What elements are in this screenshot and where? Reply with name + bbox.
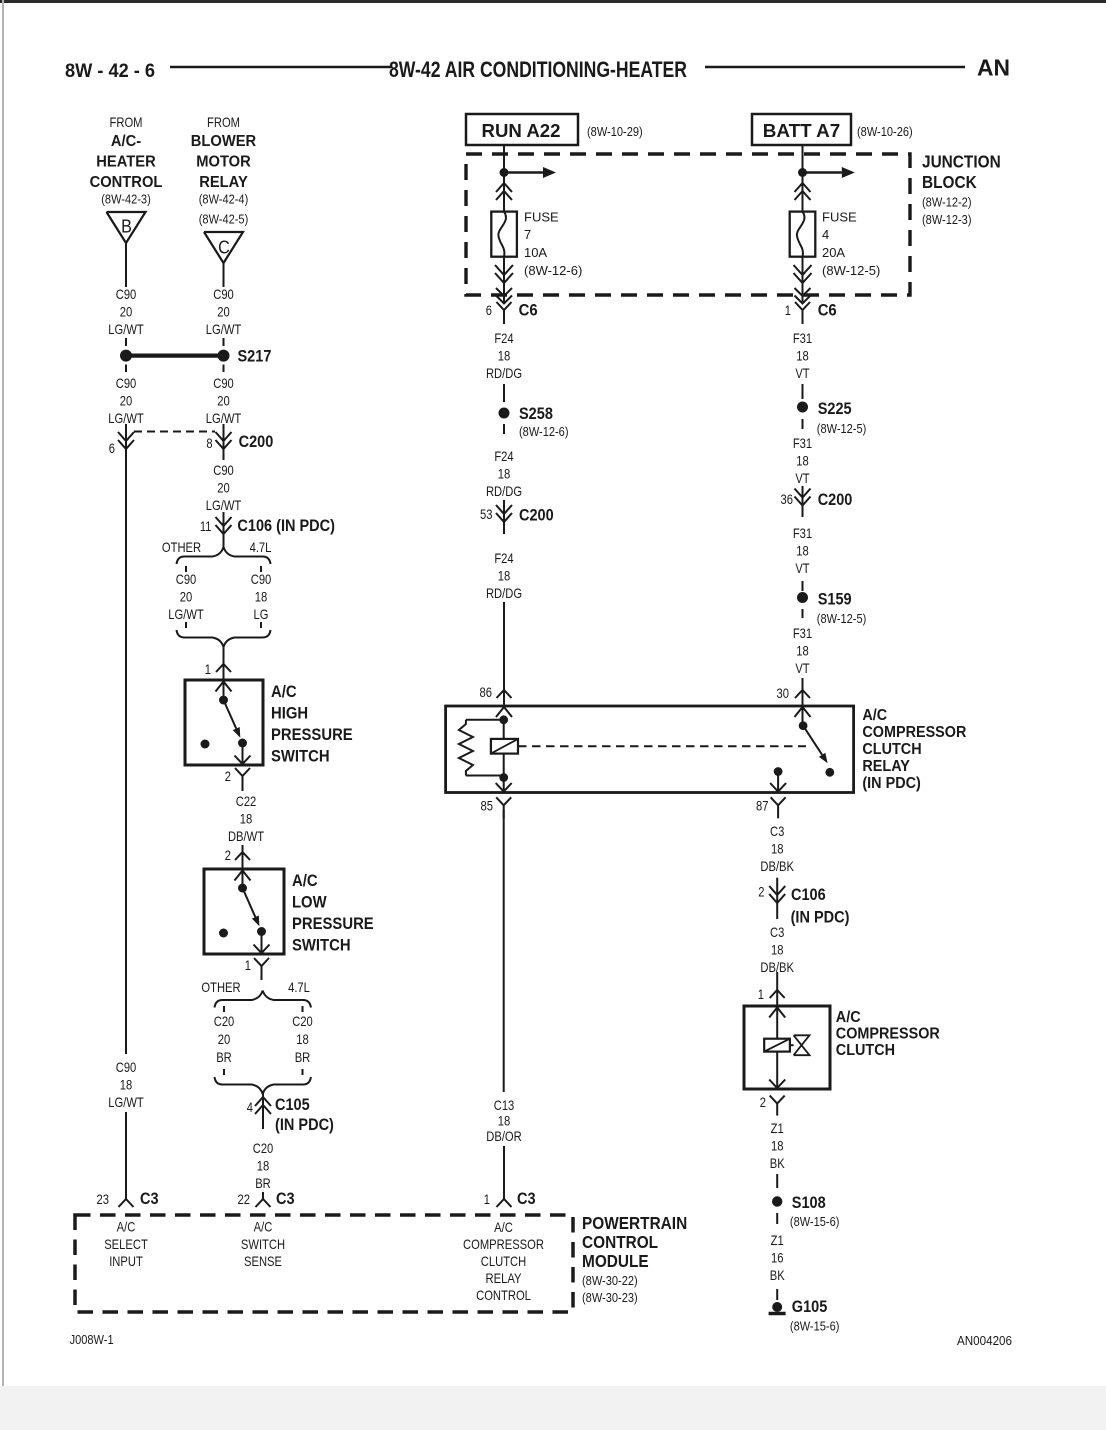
svg-text:20: 20 [217, 304, 230, 320]
wire with flow chevrons [496, 173, 512, 212]
relay pin 85 exit [481, 778, 512, 819]
svg-text:C6: C6 [818, 302, 837, 320]
svg-text:(8W-12-5): (8W-12-5) [817, 421, 867, 436]
svg-text:SENSE: SENSE [244, 1253, 282, 1269]
clutch pin 2 connector [760, 1094, 785, 1116]
reference (8W-10-26) [857, 124, 913, 139]
svg-text:18: 18 [498, 466, 511, 482]
svg-text:OTHER: OTHER [201, 979, 240, 995]
svg-text:MODULE: MODULE [582, 1251, 649, 1271]
wire label F24 18 RD/DG [486, 550, 522, 601]
svg-text:C13: C13 [494, 1097, 515, 1113]
svg-text:SELECT: SELECT [104, 1236, 148, 1252]
dashed connector link C200 [134, 431, 215, 433]
svg-text:DB/BK: DB/BK [760, 858, 794, 874]
wire label C90 20 LG/WT [206, 286, 242, 337]
branch wire [302, 1069, 304, 1075]
svg-text:8: 8 [206, 435, 212, 451]
svg-text:(8W-12-6): (8W-12-6) [524, 263, 582, 278]
wire label C90 20 LG/WT [206, 375, 242, 426]
wire [802, 419, 804, 429]
svg-text:C: C [218, 238, 230, 258]
wire [776, 878, 778, 885]
svg-text:(8W-30-22): (8W-30-22) [582, 1273, 638, 1288]
svg-text:VT: VT [795, 365, 810, 381]
svg-text:F24: F24 [494, 448, 513, 464]
off-page connector triangle C [204, 232, 243, 263]
svg-text:(8W-42-5): (8W-42-5) [199, 212, 249, 227]
svg-text:2: 2 [225, 847, 231, 863]
svg-text:53: 53 [480, 506, 493, 522]
svg-text:18: 18 [498, 568, 511, 584]
svg-text:C22: C22 [236, 793, 257, 809]
svg-text:C90: C90 [213, 462, 234, 478]
svg-text:(IN PDC): (IN PDC) [862, 775, 920, 792]
connector C106 pin 2 (in PDC) [758, 884, 849, 927]
bus node and arrow [500, 167, 557, 178]
svg-text:AN004206: AN004206 [957, 1333, 1012, 1348]
page bottom band [0, 1386, 1106, 1430]
page top border [0, 0, 1106, 3]
wire [776, 1213, 778, 1224]
branch wire [223, 1006, 225, 1012]
A/C low pressure switch label [292, 872, 374, 955]
svg-text:A/C: A/C [271, 683, 297, 701]
connector C200 pin 36 [781, 486, 853, 517]
svg-text:(8W-10-26): (8W-10-26) [857, 124, 913, 139]
svg-text:B: B [121, 217, 132, 237]
svg-text:20: 20 [217, 480, 230, 496]
svg-text:18: 18 [240, 811, 253, 827]
svg-text:INPUT: INPUT [109, 1253, 143, 1269]
branch label C90 20 LG/WT [168, 571, 204, 622]
A/C high pressure switch label [271, 683, 353, 766]
svg-text:FUSE: FUSE [822, 210, 857, 225]
svg-text:A/C: A/C [494, 1219, 513, 1235]
svg-text:RD/DG: RD/DG [486, 483, 522, 499]
wire [125, 1112, 127, 1199]
wire label Z1 18 BK [770, 1120, 785, 1171]
header rule right [705, 66, 965, 69]
svg-text:LG/WT: LG/WT [206, 497, 242, 513]
svg-text:G105: G105 [792, 1298, 828, 1316]
page left border [2, 0, 4, 1430]
relay coil to contact dashed link [518, 745, 806, 747]
branch wire [223, 1069, 225, 1075]
svg-text:20A: 20A [822, 245, 845, 260]
BATT A7 fuse block cavity box [752, 114, 851, 145]
splice S217 [120, 348, 271, 366]
wire label C90 20 LG/WT [108, 286, 144, 337]
powertrain control module label [582, 1213, 687, 1305]
svg-text:C3: C3 [276, 1190, 295, 1208]
svg-text:VT: VT [795, 470, 810, 486]
svg-text:PRESSURE: PRESSURE [271, 726, 353, 744]
ground G105 [769, 1298, 840, 1334]
wire with flow chevrons [795, 173, 811, 212]
svg-text:20: 20 [120, 304, 133, 320]
svg-text:DB/WT: DB/WT [228, 828, 264, 844]
footer sheet code [70, 1332, 114, 1347]
wire label C3 18 DB/BK [760, 924, 794, 975]
svg-text:(8W-42-3): (8W-42-3) [101, 192, 151, 207]
svg-text:A/C: A/C [117, 1219, 136, 1235]
wire [125, 243, 127, 287]
svg-text:BR: BR [295, 1049, 311, 1065]
svg-text:VT: VT [795, 560, 810, 576]
wire [802, 145, 804, 173]
branch label C90 18 LG [251, 571, 272, 622]
svg-text:6: 6 [109, 440, 115, 456]
splice S225 [797, 400, 866, 436]
svg-text:Z1: Z1 [771, 1120, 784, 1136]
splice S258 [499, 405, 569, 439]
svg-text:A/C: A/C [292, 872, 318, 890]
wire label F24 18 RD/DG [486, 448, 522, 499]
svg-text:11: 11 [200, 518, 212, 534]
wire to relay pin 30 [777, 678, 811, 706]
svg-text:LOW: LOW [292, 894, 327, 912]
svg-text:COMPRESSOR: COMPRESSOR [463, 1236, 544, 1252]
wire label C90 20 LG/WT [108, 375, 144, 426]
svg-text:F31: F31 [793, 330, 812, 346]
svg-text:F31: F31 [793, 625, 812, 641]
wire [125, 452, 127, 1054]
svg-text:VT: VT [795, 660, 810, 676]
svg-text:RD/DG: RD/DG [486, 365, 522, 381]
svg-text:20: 20 [217, 393, 230, 409]
bus node and arrow [798, 167, 855, 178]
svg-text:2: 2 [760, 1094, 766, 1110]
svg-text:FROM: FROM [207, 114, 240, 130]
svg-text:18: 18 [257, 1158, 270, 1174]
svg-text:SWITCH: SWITCH [292, 937, 351, 955]
svg-text:18: 18 [498, 348, 511, 364]
from blower motor relay label [191, 114, 256, 227]
svg-text:RD/DG: RD/DG [486, 585, 522, 601]
svg-text:4: 4 [822, 227, 829, 242]
svg-text:18: 18 [796, 643, 809, 659]
svg-text:S108: S108 [792, 1194, 826, 1212]
svg-text:PRESSURE: PRESSURE [292, 915, 374, 933]
svg-text:POWERTRAIN: POWERTRAIN [582, 1213, 687, 1233]
relay contact 87 [770, 767, 786, 792]
fuse 7 symbol [491, 212, 517, 257]
svg-text:(8W-12-5): (8W-12-5) [822, 263, 880, 278]
high pressure switch internals [201, 682, 251, 765]
svg-text:8W-42 AIR CONDITIONING-HEATER: 8W-42 AIR CONDITIONING-HEATER [389, 57, 687, 82]
svg-text:RELAY: RELAY [486, 1270, 522, 1286]
svg-text:LG/WT: LG/WT [206, 410, 242, 426]
connector pin 1 of high pressure switch [205, 646, 231, 680]
svg-text:A/C-: A/C- [111, 133, 141, 150]
connector C22 pin 2 of low pressure switch [225, 845, 250, 869]
wire label F31 18 VT [793, 625, 812, 676]
wire [223, 338, 225, 346]
svg-text:C106 (IN PDC): C106 (IN PDC) [237, 517, 335, 535]
svg-text:C200: C200 [519, 507, 554, 525]
svg-text:CONTROL: CONTROL [90, 174, 163, 191]
svg-text:C20: C20 [214, 1013, 235, 1029]
svg-text:18: 18 [120, 1077, 133, 1093]
svg-text:A/C: A/C [862, 707, 887, 724]
engine branch merge lower [215, 1077, 311, 1094]
svg-text:FROM: FROM [110, 114, 143, 130]
wire label C90 18 LG/WT [108, 1059, 144, 1110]
connector C3 pin 22 [238, 1190, 295, 1208]
svg-text:S225: S225 [818, 400, 852, 418]
svg-text:C200: C200 [818, 491, 853, 509]
connector C200 pin 8 [206, 424, 273, 460]
svg-text:10A: 10A [524, 245, 547, 260]
wire label F31 18 VT [793, 525, 812, 576]
svg-text:(8W-15-6): (8W-15-6) [790, 1319, 840, 1334]
svg-text:HIGH: HIGH [271, 705, 308, 723]
branch label C20 18 BR [292, 1013, 313, 1065]
svg-text:CONTROL: CONTROL [476, 1287, 531, 1303]
svg-text:C3: C3 [140, 1190, 159, 1208]
svg-text:18: 18 [771, 942, 784, 958]
svg-text:2: 2 [758, 884, 764, 900]
svg-text:(8W-15-6): (8W-15-6) [790, 1214, 840, 1229]
wire [802, 609, 804, 618]
svg-text:CLUTCH: CLUTCH [862, 741, 921, 758]
svg-text:1: 1 [245, 957, 251, 973]
clutch coil internals [764, 1008, 809, 1089]
svg-text:18: 18 [498, 1113, 511, 1129]
svg-text:6: 6 [486, 302, 492, 318]
svg-text:HEATER: HEATER [96, 154, 155, 171]
powertrain control module dashed box [75, 1215, 573, 1312]
svg-text:C106: C106 [791, 886, 826, 904]
svg-text:(8W-12-2): (8W-12-2) [922, 195, 972, 210]
svg-text:23: 23 [97, 1191, 110, 1207]
wire [125, 365, 127, 373]
wire label F24 18 RD/DG [486, 330, 522, 381]
connector C6 pin 1 [785, 302, 837, 325]
wire label F31 18 VT [793, 435, 812, 486]
svg-text:BATT A7: BATT A7 [763, 121, 841, 141]
svg-text:7: 7 [524, 227, 531, 242]
svg-text:C105: C105 [275, 1096, 310, 1114]
svg-text:C6: C6 [519, 302, 538, 320]
svg-text:85: 85 [481, 798, 494, 814]
connector C6 pin 6 [486, 302, 538, 325]
svg-text:Z1: Z1 [771, 1232, 784, 1248]
A/C low pressure switch box [204, 869, 284, 954]
wire [223, 263, 225, 287]
header section letter AN [977, 55, 1010, 81]
off-page connector triangle B [107, 212, 146, 243]
junction block label [922, 152, 1001, 228]
engine branch merge [177, 630, 271, 647]
connector C200 pin 6 [109, 424, 134, 456]
PCM a/c select input label [104, 1219, 148, 1270]
svg-text:C90: C90 [116, 1059, 137, 1075]
svg-text:MOTOR: MOTOR [196, 154, 251, 171]
connector C22 pin 2 below high pressure switch [225, 768, 250, 791]
wire [776, 1289, 778, 1300]
svg-text:A/C: A/C [836, 1009, 861, 1026]
svg-text:F24: F24 [494, 330, 513, 346]
reference (8W-10-29) [587, 124, 643, 139]
svg-text:1: 1 [484, 1191, 490, 1207]
wire [802, 581, 804, 591]
wire label C90 20 LG/WT [206, 462, 242, 513]
wire label C22 18 DB/WT [228, 793, 264, 844]
svg-text:30: 30 [777, 685, 790, 701]
svg-text:S258: S258 [519, 405, 553, 423]
splice S108 [772, 1194, 839, 1229]
svg-text:F31: F31 [793, 435, 812, 451]
wire [223, 540, 225, 548]
svg-text:DB/OR: DB/OR [486, 1128, 522, 1144]
svg-text:F24: F24 [494, 550, 513, 566]
junction block dashed outline [466, 154, 910, 295]
branch wire [185, 566, 187, 572]
svg-text:18: 18 [796, 453, 809, 469]
branch wire [302, 1006, 304, 1012]
svg-text:1: 1 [205, 661, 211, 677]
svg-text:S217: S217 [238, 348, 272, 366]
svg-text:BLOWER: BLOWER [191, 133, 256, 150]
svg-text:LG/WT: LG/WT [108, 410, 144, 426]
svg-text:S159: S159 [818, 591, 852, 609]
branch wire [260, 566, 262, 572]
svg-text:JUNCTION: JUNCTION [922, 152, 1001, 172]
svg-text:(IN PDC): (IN PDC) [791, 909, 850, 927]
svg-text:F31: F31 [793, 525, 812, 541]
svg-text:LG/WT: LG/WT [108, 1094, 144, 1110]
svg-text:20: 20 [218, 1031, 231, 1047]
wire to relay pin 86 [480, 602, 512, 706]
svg-text:C90: C90 [116, 286, 137, 302]
svg-text:C20: C20 [253, 1140, 274, 1156]
wire label C20 18 BR [253, 1140, 274, 1191]
svg-text:C90: C90 [213, 375, 234, 391]
svg-text:OTHER: OTHER [162, 539, 201, 555]
svg-text:COMPRESSOR: COMPRESSOR [836, 1026, 940, 1043]
svg-text:20: 20 [120, 393, 133, 409]
splice S159 [797, 591, 866, 627]
relay pin 87 connector [756, 797, 786, 818]
branch wire [185, 622, 187, 628]
svg-text:18: 18 [796, 348, 809, 364]
PCM a/c switch sense label [241, 1219, 285, 1270]
wire with flow chevrons [495, 257, 513, 304]
svg-text:CLUTCH: CLUTCH [836, 1042, 895, 1059]
svg-text:18: 18 [771, 841, 784, 857]
engine split OTHER / 4.7L lower [201, 979, 311, 1008]
svg-text:(8W-12-6): (8W-12-6) [519, 424, 569, 439]
svg-text:RUN A22: RUN A22 [482, 121, 561, 141]
svg-text:18: 18 [296, 1031, 309, 1047]
svg-text:SWITCH: SWITCH [241, 1236, 285, 1252]
wire [503, 424, 505, 434]
svg-text:22: 22 [238, 1191, 251, 1207]
svg-text:4.7L: 4.7L [288, 979, 310, 995]
svg-text:BR: BR [255, 1175, 271, 1191]
fuse 4 label [822, 210, 880, 278]
wire with flow chevrons [794, 257, 812, 304]
wire from relay 85 to PCM [503, 810, 505, 1092]
svg-text:87: 87 [756, 798, 769, 814]
svg-text:18: 18 [771, 1138, 784, 1154]
from A/C-heater control label [90, 114, 163, 207]
svg-text:BK: BK [770, 1155, 785, 1171]
wire label C3 18 DB/BK [760, 823, 794, 874]
A/C compressor clutch box [744, 1006, 830, 1089]
svg-text:BR: BR [216, 1049, 232, 1065]
svg-text:1: 1 [785, 302, 791, 318]
wire [125, 338, 127, 346]
svg-text:4: 4 [247, 1099, 253, 1115]
wire [262, 1192, 264, 1199]
footer drawing number [957, 1333, 1012, 1348]
svg-text:FUSE: FUSE [524, 210, 559, 225]
svg-text:18: 18 [796, 543, 809, 559]
wire [223, 365, 225, 373]
A/C compressor clutch relay label [862, 707, 966, 792]
low pressure switch internals [219, 871, 270, 954]
svg-text:(IN PDC): (IN PDC) [275, 1116, 334, 1134]
engine split OTHER / 4.7L [162, 539, 272, 564]
wire label F31 18 VT [793, 330, 812, 381]
svg-text:(8W-30-23): (8W-30-23) [582, 1290, 638, 1305]
svg-text:SWITCH: SWITCH [271, 748, 330, 766]
svg-text:2: 2 [225, 768, 231, 784]
wire label C13 18 DB/OR [486, 1097, 522, 1144]
svg-text:16: 16 [771, 1250, 784, 1266]
wire [503, 384, 505, 402]
wire [776, 1174, 778, 1188]
wire label Z1 16 BK [770, 1232, 785, 1283]
svg-text:CLUTCH: CLUTCH [481, 1253, 526, 1269]
RUN A22 fuse block cavity box [466, 114, 578, 145]
wire [503, 145, 505, 173]
connector C106 pin 11 (in PDC) [200, 512, 335, 540]
svg-text:(8W-10-29): (8W-10-29) [587, 124, 643, 139]
branch wire [260, 622, 262, 628]
svg-text:86: 86 [480, 684, 493, 700]
svg-text:4.7L: 4.7L [250, 539, 272, 555]
svg-text:C90: C90 [176, 571, 197, 587]
relay coil circuit [459, 707, 518, 782]
svg-text:(8W-12-3): (8W-12-3) [922, 212, 972, 227]
wire [802, 384, 804, 399]
wire [503, 1146, 505, 1199]
svg-text:C3: C3 [517, 1190, 536, 1208]
connector pin 1 below low pressure switch [245, 957, 269, 980]
svg-text:RELAY: RELAY [862, 758, 910, 775]
svg-text:LG/WT: LG/WT [108, 321, 144, 337]
PCM a/c compressor clutch relay control label [463, 1219, 544, 1303]
svg-text:C200: C200 [239, 433, 274, 451]
connector C200 pin 53 [480, 500, 554, 534]
svg-text:1: 1 [758, 986, 764, 1002]
header page number [65, 61, 155, 82]
svg-text:J008W-1: J008W-1 [70, 1332, 114, 1347]
header rule left [170, 66, 392, 69]
svg-text:36: 36 [781, 491, 794, 507]
svg-text:C90: C90 [251, 571, 272, 587]
svg-text:A/C: A/C [254, 1219, 273, 1235]
A/C high pressure switch box [185, 680, 263, 765]
relay contact 30 and blade [795, 706, 835, 777]
connector C105 pin 4 (in PDC) [247, 1092, 334, 1134]
svg-text:(8W-12-5): (8W-12-5) [817, 611, 867, 626]
A/C compressor clutch label [836, 1009, 940, 1059]
